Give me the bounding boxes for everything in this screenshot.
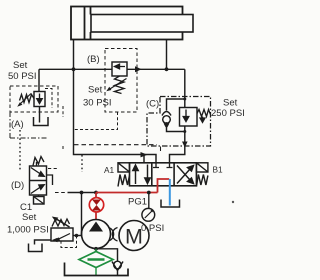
valve A outlet [39, 107, 41, 123]
speck [232, 201, 234, 203]
wire dashed pilot above valve [74, 145, 161, 154]
cylinder piston [85, 7, 91, 39]
svg-text:Set: Set [88, 85, 103, 96]
wire dotted vertical to D [19, 130, 21, 171]
relief outlet to tank [35, 240, 52, 245]
svg-text:PG1: PG1 [128, 197, 147, 208]
valve A adjust arrow [19, 94, 31, 106]
relief valve feed [81, 193, 83, 236]
svg-text:0 PSI: 0 PSI [141, 223, 164, 234]
svg-text:Set: Set [22, 212, 37, 223]
svg-text:(A): (A) [11, 119, 24, 130]
wire dashed stub [62, 106, 64, 150]
svg-text:A1: A1 [104, 165, 115, 175]
svg-text:250 PSI: 250 PSI [211, 108, 245, 119]
cylinder barrel [71, 7, 183, 40]
valve B dashed enclosure [105, 49, 137, 113]
svg-text:(D): (D) [11, 180, 24, 191]
wire down to valve C [184, 69, 186, 107]
valve B adjust arrow [109, 79, 127, 90]
svg-text:Set: Set [13, 60, 28, 71]
valve D body [30, 166, 47, 195]
relief valve body [51, 228, 73, 241]
valve C branch top [167, 99, 185, 111]
valve A spring [20, 95, 35, 103]
blue tank path from valve [169, 179, 171, 206]
ground tank under valve A [34, 117, 49, 126]
valve D pilot lines [47, 175, 53, 185]
relief adjust arrow [56, 219, 70, 228]
shutoff valve red bowtie [89, 198, 103, 212]
node junction rod line x service line [165, 67, 169, 71]
svg-text:(B): (B) [87, 54, 100, 65]
svg-text:Set: Set [223, 98, 238, 109]
check valve lower line [167, 128, 185, 132]
cylinder rod [91, 15, 193, 33]
valve B spring [115, 76, 125, 94]
left box straight arrows [133, 165, 138, 184]
pressure line red [96, 192, 158, 194]
gauge PG1 [142, 208, 155, 221]
check valve near tank [114, 261, 122, 269]
svg-text:(C): (C) [146, 99, 159, 110]
crossed arrows box [177, 166, 194, 184]
center box blocked stubs [153, 163, 159, 168]
svg-text:50 PSI: 50 PSI [8, 71, 37, 82]
valve C spring [197, 110, 211, 117]
check valve circle [163, 116, 171, 124]
node relief tap [80, 191, 84, 195]
valve A internal arrow [37, 94, 42, 104]
wire horizontal service line y=69 [39, 68, 185, 70]
wire arrowhead on service line [135, 66, 142, 72]
pressure line black left part [68, 192, 97, 194]
red stub to valve P [158, 179, 170, 193]
node C branch dots [183, 98, 186, 101]
coupling [109, 228, 118, 242]
node gauge tap [147, 191, 151, 195]
ground tank relief [29, 244, 43, 252]
valve C pilot arrow [200, 117, 205, 123]
valve B body [112, 62, 127, 76]
wire rod-end line [166, 39, 168, 69]
wire dash-dot below A [10, 112, 48, 138]
spring left [118, 175, 130, 187]
valve A reducing valve feed [38, 69, 40, 91]
valve D solenoid C1 [34, 197, 45, 205]
node A-port stub [143, 155, 145, 164]
node pump line tap [94, 191, 98, 195]
svg-text:B1: B1 [213, 165, 224, 175]
solenoid A1 box [118, 163, 130, 172]
relief pilot dashed [61, 236, 77, 248]
valve C internal arrow [183, 110, 189, 122]
reservoir tank [65, 263, 129, 276]
relief internal arrow [58, 234, 70, 240]
node junction cap line x service line [72, 67, 76, 71]
valve D spring top [33, 157, 44, 166]
valve A body [34, 92, 45, 107]
check valve arrow [164, 122, 170, 129]
valve A pilot dashed [45, 89, 52, 109]
pump suction [94, 247, 98, 251]
filter strainer [95, 249, 97, 252]
ground tank T [161, 200, 180, 208]
svg-text:30 PSI: 30 PSI [83, 98, 112, 109]
solenoid B1 box [196, 163, 208, 172]
wire cap-end line down-right to valve [74, 39, 157, 163]
valve D bottom box arrow [31, 185, 44, 194]
check valve C1bypass seat [162, 112, 171, 116]
valve B internal arrow [115, 64, 126, 69]
spring right [196, 175, 208, 187]
svg-text:1,000 PSI: 1,000 PSI [7, 225, 49, 236]
directional valve U1 body [130, 163, 197, 186]
relief spring [52, 219, 70, 227]
valve C enclosure dash-dot [147, 97, 211, 147]
valve A dashed enclosure [10, 86, 58, 112]
valve D top box arrow [31, 168, 44, 177]
valve C bottom line with arrowhead [170, 126, 185, 163]
pump P1 [82, 220, 111, 249]
valve B pilot dashed L [74, 112, 118, 130]
gauge stem [148, 193, 150, 209]
motor M [119, 221, 149, 251]
valve C body [180, 108, 198, 127]
